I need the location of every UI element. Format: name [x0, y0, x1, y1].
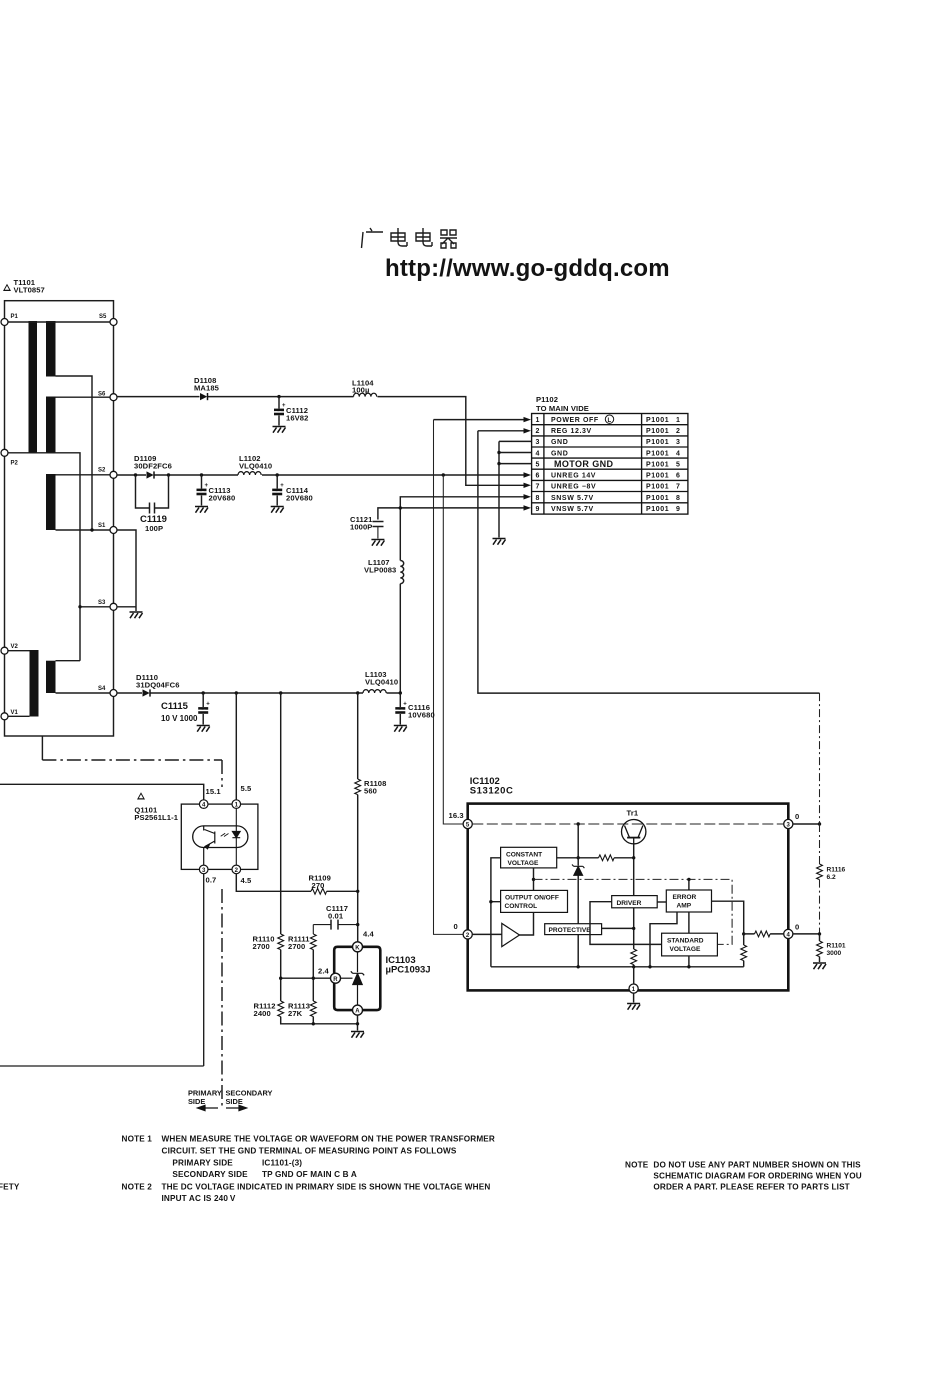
junction top rail zener column — [577, 822, 580, 825]
resistor R1113 — [310, 1001, 316, 1017]
junction GND row5 — [497, 462, 500, 465]
junction R1108 feed — [356, 691, 359, 694]
diode D1108 — [200, 393, 208, 400]
wire zener column — [577, 824, 579, 967]
IC1102 pin5 — [463, 819, 472, 828]
svg-text:ERROR: ERROR — [673, 894, 697, 901]
junction R1110 feed — [279, 691, 282, 694]
wire driver to error amp — [657, 901, 666, 903]
svg-text:http://www.go-gddq.com: http://www.go-gddq.com — [385, 255, 670, 282]
resistor R1101 — [817, 934, 823, 962]
capacitor C1116 — [395, 693, 407, 725]
junction C1116 — [399, 691, 402, 694]
svg-text:P1001: P1001 — [646, 450, 669, 457]
svg-text:ORDER A PART. PLEASE REFER TO: ORDER A PART. PLEASE REFER TO PARTS LIST — [653, 1183, 849, 1192]
ground C1114 — [271, 507, 284, 513]
terminal S5 — [110, 319, 117, 326]
label PRIMARY SIDE — [188, 1089, 222, 1107]
svg-text:S3: S3 — [98, 600, 106, 606]
label IC1103 — [386, 955, 431, 976]
wire opto pin2 to R1109 — [236, 874, 311, 892]
label R1110 — [253, 935, 275, 952]
terminal P1 — [1, 319, 8, 326]
resistor internal emitter — [631, 949, 637, 965]
ground C1116 — [394, 726, 407, 732]
wire error amp top — [688, 879, 690, 890]
resistor R1109 — [311, 888, 327, 894]
ground IC1102 pin1 — [627, 1004, 640, 1010]
IC1103 outline — [334, 947, 380, 1010]
svg-text:S5: S5 — [99, 314, 107, 320]
junction rail zener — [577, 965, 580, 968]
svg-text:6: 6 — [676, 473, 681, 480]
svg-text:2400: 2400 — [254, 1009, 271, 1018]
svg-text:IC1101-(3): IC1101-(3) — [262, 1159, 302, 1168]
svg-text:C1115: C1115 — [161, 701, 189, 712]
transformer primary winding P1-P2 bar — [29, 321, 38, 453]
wire S1 tap — [56, 529, 114, 531]
svg-text:Tr1: Tr1 — [627, 809, 639, 818]
svg-text:NOTE 1: NOTE 1 — [122, 1135, 153, 1144]
wire pin3 to R1116 column — [793, 823, 820, 825]
svg-text:P2: P2 — [11, 461, 19, 467]
label R1109 — [309, 874, 331, 891]
svg-text:µPC1093J: µPC1093J — [386, 965, 431, 976]
wire S2 tap — [56, 474, 114, 476]
svg-text:100P: 100P — [145, 524, 163, 533]
optocoupler LED — [221, 804, 241, 869]
svg-text:VOLTAGE: VOLTAGE — [670, 946, 701, 953]
terminal S2 — [110, 471, 117, 478]
junction R1116 top — [818, 822, 821, 825]
svg-text:2700: 2700 — [253, 942, 270, 951]
capacitor C1115 — [198, 693, 210, 725]
transformer winding V2-V1 bar — [30, 650, 39, 717]
svg-text:P1001: P1001 — [646, 495, 669, 502]
svg-text:2.4: 2.4 — [318, 967, 330, 976]
IC1102 outline — [468, 804, 789, 991]
IC1103 pin R — [331, 973, 341, 983]
wire buffer out to output box — [520, 912, 534, 935]
svg-text:GND: GND — [551, 450, 568, 457]
wire resistor row — [557, 857, 634, 859]
svg-text:SIDE: SIDE — [226, 1097, 243, 1106]
wire pin2 to buffer — [472, 933, 502, 935]
svg-text:CONTROL: CONTROL — [505, 903, 538, 910]
label L1102 — [239, 454, 272, 471]
wire L1107 to S4 rail — [399, 584, 401, 693]
svg-text:NOTE 2: NOTE 2 — [122, 1183, 153, 1192]
svg-text:PRIMARY SIDE: PRIMARY SIDE — [172, 1159, 233, 1168]
terminal S3 — [110, 603, 117, 610]
svg-text:SECONDARY SIDE: SECONDARY SIDE — [172, 1170, 248, 1179]
svg-text:8: 8 — [676, 495, 681, 502]
svg-text:3: 3 — [535, 439, 540, 446]
arrow secondary side — [226, 1105, 247, 1110]
label C1112 — [286, 406, 308, 423]
svg-text:4: 4 — [535, 450, 540, 457]
label D1110 — [136, 673, 180, 690]
svg-text:+: + — [280, 483, 284, 489]
wire error amp to standard voltage — [688, 912, 690, 967]
wire VNSW row9 — [378, 508, 524, 520]
wire S6 rail — [117, 397, 524, 486]
wire REG row feed — [478, 430, 524, 432]
wire S3 line — [80, 606, 110, 608]
svg-text:CONSTANT: CONSTANT — [506, 852, 542, 859]
optocoupler phototransistor — [204, 826, 215, 869]
buffer triangle — [502, 923, 520, 946]
label C1116 — [408, 703, 435, 720]
wire R1116 dashdot column — [819, 693, 821, 934]
svg-text:30DF2FC6: 30DF2FC6 — [134, 462, 172, 471]
svg-text:4.5: 4.5 — [241, 876, 253, 885]
optocoupler pin2 — [232, 865, 241, 874]
svg-text:INPUT AC IS 240 V: INPUT AC IS 240 V — [162, 1194, 236, 1203]
svg-text:WHEN MEASURE THE VOLTAGE OR WA: WHEN MEASURE THE VOLTAGE OR WAVEFORM ON … — [162, 1135, 495, 1144]
svg-text:20V680: 20V680 — [209, 494, 236, 503]
svg-text:DO NOT USE ANY PART NUMBER SHO: DO NOT USE ANY PART NUMBER SHOWN ON THIS — [653, 1161, 861, 1170]
wire R1111 to divider — [312, 950, 314, 1001]
IC1103 pin K — [353, 942, 363, 952]
optocoupler Q1101 outline — [181, 804, 258, 869]
wire V2 tap — [5, 650, 30, 652]
svg-text:TP GND OF MAIN C B A: TP GND OF MAIN C B A — [262, 1170, 357, 1179]
ground R1101 — [813, 963, 826, 969]
wire P1 to S5 top line — [5, 321, 114, 323]
resistor R1111 — [310, 934, 316, 950]
svg-text:R1101: R1101 — [827, 943, 846, 950]
junction dashdot feedback — [532, 878, 535, 881]
label L1103 — [365, 670, 398, 687]
svg-text:10 V 1000: 10 V 1000 — [161, 714, 198, 723]
optocoupler pin1 — [232, 800, 241, 809]
svg-text:PS2561L1-1: PS2561L1-1 — [134, 813, 178, 822]
svg-text:THE DC VOLTAGE INDICATED IN PR: THE DC VOLTAGE INDICATED IN PRIMARY SIDE… — [162, 1183, 491, 1192]
inductor L1102 — [238, 472, 261, 475]
svg-text:9: 9 — [676, 506, 681, 513]
transformer winding S3-S4 bar — [46, 661, 56, 693]
svg-text:5.5: 5.5 — [241, 784, 253, 793]
arrow into pin7 — [524, 483, 532, 488]
wire error amp bottom left tap — [650, 912, 677, 967]
svg-text:P1001: P1001 — [646, 439, 669, 446]
svg-text:V1: V1 — [11, 710, 19, 716]
transistor Tr1 — [622, 820, 646, 844]
svg-text:2: 2 — [676, 428, 681, 435]
junction S1 winding tap — [90, 528, 93, 531]
svg-text:VLQ0410: VLQ0410 — [365, 678, 398, 687]
svg-text:VNSW 5.7V: VNSW 5.7V — [551, 506, 594, 513]
junction rail erroramp tap — [648, 965, 651, 968]
connector row signal names — [551, 417, 614, 513]
svg-text:3: 3 — [676, 439, 681, 446]
svg-text:+: + — [403, 702, 407, 708]
svg-text:27K: 27K — [288, 1009, 303, 1018]
svg-text:VLP0083: VLP0083 — [364, 566, 396, 575]
junction C1113 — [200, 473, 203, 476]
junction C1114 — [276, 473, 279, 476]
svg-text:3000: 3000 — [827, 950, 842, 957]
label R1101 — [827, 943, 846, 958]
wire pin4 row — [744, 933, 784, 935]
title chinese characters 广电电器 — [362, 228, 458, 248]
label SECONDARY SIDE — [226, 1089, 273, 1107]
wire constant to output vertical — [533, 868, 535, 891]
wire S1 to S3 ground branch — [117, 530, 136, 611]
IC1102 pin4 — [784, 929, 793, 938]
svg-text:S2: S2 — [98, 468, 106, 474]
wire protective right — [602, 927, 634, 929]
wire S6 tap — [56, 396, 114, 398]
svg-text:VLT0857: VLT0857 — [14, 286, 45, 295]
svg-text:P1102: P1102 — [536, 395, 558, 404]
svg-text:STANDARD: STANDARD — [667, 938, 704, 945]
arrow into pin8 — [524, 494, 532, 499]
wire R1110 branch — [281, 693, 358, 1024]
terminal S4 — [110, 690, 117, 697]
arrow into pin9 — [524, 505, 532, 510]
arrow primary side — [198, 1105, 219, 1110]
label C1121 — [350, 515, 373, 532]
svg-text:AMP: AMP — [677, 902, 692, 909]
optocoupler pin3 — [199, 865, 208, 874]
transformer winding S6 bar — [46, 397, 56, 454]
wire P2 line — [5, 452, 56, 454]
wire SNSW row8 from L1107 — [400, 497, 524, 561]
inductor L1103 — [363, 690, 386, 693]
ground at S3 — [130, 612, 143, 618]
terminal S6 — [110, 394, 117, 401]
wire REG 12.3V riser — [478, 431, 820, 693]
wire S5 bar bottom tap to S1 — [56, 376, 93, 530]
svg-text:270: 270 — [312, 881, 325, 890]
box ERROR AMP — [666, 890, 711, 912]
wire R divider to IC1103 R pin — [281, 977, 331, 979]
svg-text:UNREG 14V: UNREG 14V — [551, 473, 596, 480]
svg-text:31DQ04FC6: 31DQ04FC6 — [136, 681, 180, 690]
svg-text:20V680: 20V680 — [286, 494, 313, 503]
optocoupler pin4 — [199, 800, 208, 809]
zener diode internal — [572, 865, 584, 876]
svg-text:R1116: R1116 — [827, 867, 846, 874]
label D1108 — [194, 376, 220, 393]
wire R1113 to gnd rail — [312, 1017, 314, 1024]
svg-text:16V82: 16V82 — [286, 414, 308, 423]
svg-text:+: + — [206, 702, 210, 708]
svg-text:6.2: 6.2 — [827, 874, 836, 881]
svg-text:P1001: P1001 — [646, 428, 669, 435]
label C1117 — [326, 904, 348, 921]
wire pin4 to R1101 column — [793, 933, 820, 935]
wire S4 rail — [117, 692, 400, 694]
IC1102 pin1 — [629, 984, 638, 993]
svg-text:15.1: 15.1 — [206, 787, 222, 796]
junction C1117 right — [356, 923, 359, 926]
inductor L1104 — [354, 393, 377, 396]
wire bottom rail internal — [491, 966, 744, 968]
junction row9 L1107 riser — [399, 506, 402, 509]
terminal S1 — [110, 527, 117, 534]
capacitor C1114 — [272, 475, 284, 506]
wire IC1102 pin5 feed — [443, 475, 463, 824]
junction S3 tap — [78, 605, 81, 608]
svg-text:TO MAIN VIDE: TO MAIN VIDE — [536, 404, 589, 413]
svg-text:GND: GND — [551, 439, 568, 446]
junction C1112 — [277, 395, 280, 398]
junction resistor row left — [577, 856, 580, 859]
ground IC1103 — [351, 1032, 364, 1038]
note right text — [625, 1161, 862, 1192]
junction divider right — [312, 977, 315, 980]
label R1108 — [364, 779, 386, 796]
capacitor C1112 — [274, 397, 286, 426]
connector P1102 table — [532, 414, 688, 515]
svg-text:NOTE: NOTE — [625, 1161, 649, 1170]
label IC1102 — [470, 776, 514, 797]
svg-text:9: 9 — [535, 506, 540, 513]
svg-text:7: 7 — [535, 484, 540, 491]
wire S2 rail — [117, 474, 524, 476]
junction R1109 R1108 — [356, 890, 359, 893]
svg-text:5: 5 — [676, 461, 681, 468]
svg-text:0: 0 — [454, 922, 458, 931]
ground C1121 — [371, 540, 384, 546]
junction D1109 anode — [134, 473, 137, 476]
junction error amp top — [687, 878, 690, 881]
transformer T1101 warning triangle — [3, 284, 11, 291]
terminal V2 — [1, 647, 8, 654]
svg-text:2: 2 — [535, 428, 540, 435]
wire pin1 stem — [633, 967, 635, 1003]
svg-text:P1001: P1001 — [646, 506, 669, 513]
resistor R1108 — [355, 779, 361, 795]
junction D1109 cathode — [167, 473, 170, 476]
svg-text:P1001: P1001 — [646, 473, 669, 480]
svg-text:POWER OFF: POWER OFF — [551, 417, 599, 424]
svg-text:VOLTAGE: VOLTAGE — [508, 860, 539, 867]
label C1114 — [286, 486, 313, 503]
junction R1113 rail — [312, 1022, 315, 1025]
junction resistor row right — [632, 856, 635, 859]
terminal P2 — [1, 449, 8, 456]
svg-text:L: L — [608, 418, 612, 424]
svg-text:560: 560 — [364, 787, 377, 796]
junction opto feed — [235, 691, 238, 694]
svg-text:8: 8 — [535, 495, 540, 502]
wire S4 tap — [56, 692, 114, 694]
transformer T1101 outline — [5, 301, 114, 736]
wire R1108 branch — [357, 693, 359, 947]
connector POWER OFF circled L — [605, 415, 613, 424]
wire driver left loop — [590, 902, 662, 945]
label L1107 — [364, 558, 396, 575]
svg-text:1: 1 — [676, 417, 681, 424]
wire opto pin3 to primary rail — [0, 874, 204, 1066]
capacitor C1119 bypass — [136, 475, 169, 514]
IC1103 internal zener — [340, 952, 364, 1006]
warning triangle Q1101 — [137, 792, 145, 799]
transformer T1101 label — [14, 278, 45, 295]
svg-text:SCHEMATIC DIAGRAM FOR ORDERING: SCHEMATIC DIAGRAM FOR ORDERING WHEN YOU — [653, 1172, 861, 1181]
svg-text:V2: V2 — [11, 644, 19, 650]
svg-text:4: 4 — [676, 450, 681, 457]
wire IC1103 A to ground — [357, 1015, 359, 1030]
svg-text:0: 0 — [795, 923, 799, 932]
svg-text:P1001: P1001 — [646, 484, 669, 491]
wire right column resistor — [743, 934, 745, 967]
box DRIVER — [612, 896, 658, 908]
resistor R1116 — [817, 864, 823, 880]
svg-text:6: 6 — [535, 473, 540, 480]
connector pin numbers column — [535, 417, 540, 513]
capacitor C1121 — [373, 522, 384, 539]
junction protective tr1 column — [632, 927, 635, 930]
svg-text:2700: 2700 — [288, 942, 305, 951]
box OUTPUT ON/OFF CONTROL — [501, 890, 568, 912]
label Q1101 — [134, 806, 178, 823]
junction pin4 row — [742, 932, 745, 935]
svg-text:MOTOR GND: MOTOR GND — [554, 459, 614, 469]
svg-text:0: 0 — [795, 812, 799, 821]
ground C1115 — [197, 726, 210, 732]
junction divider left — [279, 977, 282, 980]
svg-text:SNSW 5.7V: SNSW 5.7V — [551, 495, 594, 502]
junction GND row4 — [497, 451, 500, 454]
svg-text:1: 1 — [535, 417, 540, 424]
resistor internal top — [599, 855, 615, 861]
wire error amp right tap — [712, 901, 744, 934]
diode D1109 — [147, 471, 155, 478]
svg-text:10V680: 10V680 — [408, 711, 435, 720]
label L1104 — [352, 379, 374, 395]
inductor L1107 — [400, 561, 403, 584]
wire top rail pin5 to pin3 — [472, 823, 783, 825]
svg-text:16.3: 16.3 — [449, 811, 464, 820]
label C1113 — [209, 486, 236, 503]
wire GND column P1102 — [499, 441, 532, 537]
transformer winding S2-S1 bar — [46, 474, 56, 530]
capacitor C1113 — [197, 475, 209, 506]
wire R1109 to R1108 node — [327, 890, 358, 892]
svg-text:1000P: 1000P — [350, 523, 372, 532]
svg-text:S13120C: S13120C — [470, 786, 514, 797]
resistor internal right — [741, 945, 747, 961]
svg-text:CIRCUIT. SET THE GND TERMINAL: CIRCUIT. SET THE GND TERMINAL OF MEASURI… — [162, 1147, 457, 1156]
svg-text:DRIVER: DRIVER — [617, 900, 642, 907]
ground C1112 — [273, 427, 286, 433]
transformer winding S5 bar — [46, 321, 56, 377]
wire V1 tap — [5, 715, 30, 717]
wire dashdot feedback to standard voltage — [534, 879, 733, 944]
arrow into pin1 — [524, 417, 532, 422]
svg-text:5: 5 — [535, 461, 540, 468]
label R1116 — [827, 867, 846, 882]
label R1113 — [288, 1002, 310, 1019]
resistor R1110 — [278, 934, 284, 950]
junction A rail — [356, 1022, 359, 1025]
junction rail standard — [687, 965, 690, 968]
svg-text:REG 12.3V: REG 12.3V — [551, 428, 592, 435]
junction UNREG14V branch to IC pin5 — [442, 473, 445, 476]
label C1119 — [140, 514, 167, 533]
label C1115 — [161, 701, 198, 723]
wire opto pin4 to left edge — [0, 784, 204, 800]
svg-text:0.01: 0.01 — [328, 912, 344, 921]
svg-text:S1: S1 — [98, 523, 106, 529]
svg-text:K: K — [355, 945, 360, 951]
ground C1113 — [195, 507, 208, 513]
